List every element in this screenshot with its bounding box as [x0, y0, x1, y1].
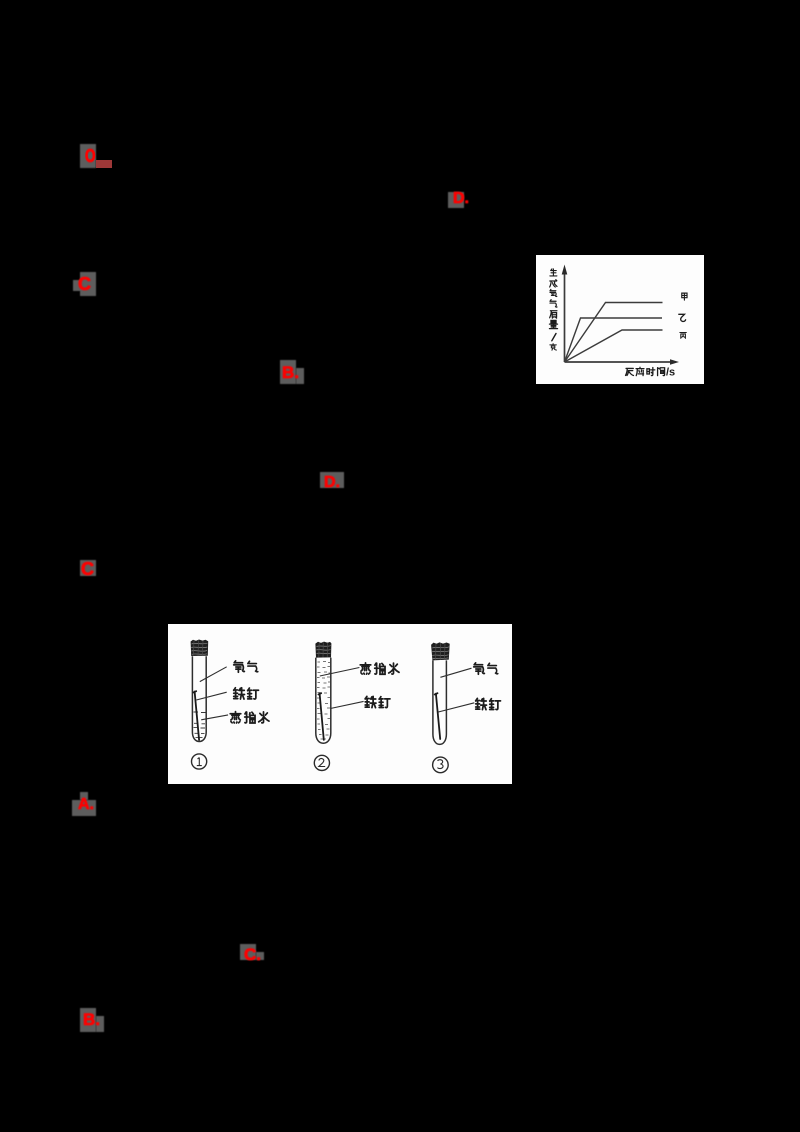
leader line: distilled water label to tube 1 — [201, 715, 228, 720]
tube 2 iron nail — [318, 693, 323, 740]
leader line: oxygen label to tube 3 — [440, 668, 471, 677]
tube 3 body — [433, 660, 447, 744]
y-axis arrowhead — [562, 265, 568, 275]
answer mark 5: red D. with highlight — [320, 472, 344, 488]
svg-text:/s: /s — [666, 367, 675, 379]
answer mark 8: red C with highlight — [240, 944, 256, 960]
slash in y label — [552, 334, 556, 341]
tube 3 iron nail — [435, 693, 441, 739]
leader line: nail label to tube 2 — [330, 701, 363, 708]
tube 1 water dashes — [194, 712, 206, 738]
curve jia (highest plateau) — [565, 303, 663, 363]
answer mark 3: red C with highlight — [80, 272, 96, 296]
tube 1 label: oxygen — [234, 661, 245, 672]
curve yi (middle plateau, steepest rise) — [565, 318, 663, 362]
tube 1 label: distilled water — [230, 712, 241, 723]
answer mark 1: red O with highlight — [80, 144, 96, 168]
tube 2 label: distilled water — [360, 663, 371, 674]
tube 1 body — [192, 656, 206, 741]
y-axis label (vertical CJK) — [550, 269, 557, 276]
circled 3 — [433, 757, 449, 773]
circled 1 — [192, 754, 207, 769]
answer mark 4: red B. with highlight — [280, 360, 296, 384]
leader line: nail label to tube 3 — [438, 703, 474, 712]
label yi — [679, 314, 686, 321]
tube 3 label: iron nail — [476, 698, 487, 709]
answer mark 1 red letter — [85, 147, 96, 165]
answer mark 9: red B. with highlight — [80, 1008, 96, 1032]
x-axis — [565, 361, 671, 363]
tube 2 label: iron nail — [365, 696, 376, 707]
answer mark 2: red D. with highlight — [448, 192, 464, 208]
x-axis arrowhead — [670, 359, 679, 365]
test tube figure panel — [168, 624, 512, 784]
y-axis — [564, 271, 566, 362]
tube 2 water fill (dotted) — [317, 662, 330, 740]
circled 2 — [314, 755, 329, 770]
leader line: distilled water label to tube 2 — [320, 668, 360, 677]
gram character — [550, 344, 556, 351]
answer mark 1 dark-red subscript block — [96, 160, 112, 168]
tube 3 label: oxygen — [474, 663, 485, 674]
graph panel (hydrogen mass vs reaction time) — [536, 255, 704, 384]
label bing — [680, 333, 686, 339]
x-axis label: reaction time /s — [626, 368, 634, 375]
tube 1 stopper — [191, 640, 209, 657]
tube 3 stopper — [431, 642, 450, 660]
tube 2 body — [316, 658, 331, 744]
tube 2 stopper — [315, 642, 331, 658]
label jia — [682, 293, 687, 300]
tube 1 iron nail — [193, 691, 199, 740]
answer mark 6: red C with highlight — [80, 560, 96, 576]
answer mark 7: red A. with highlight — [80, 792, 88, 800]
curve bing (lowest plateau) — [565, 330, 663, 362]
leader line: oxygen label to tube 1 — [200, 667, 227, 682]
tube 1 label: iron nail — [234, 688, 245, 699]
leader line: nail label to tube 1 — [196, 692, 226, 700]
